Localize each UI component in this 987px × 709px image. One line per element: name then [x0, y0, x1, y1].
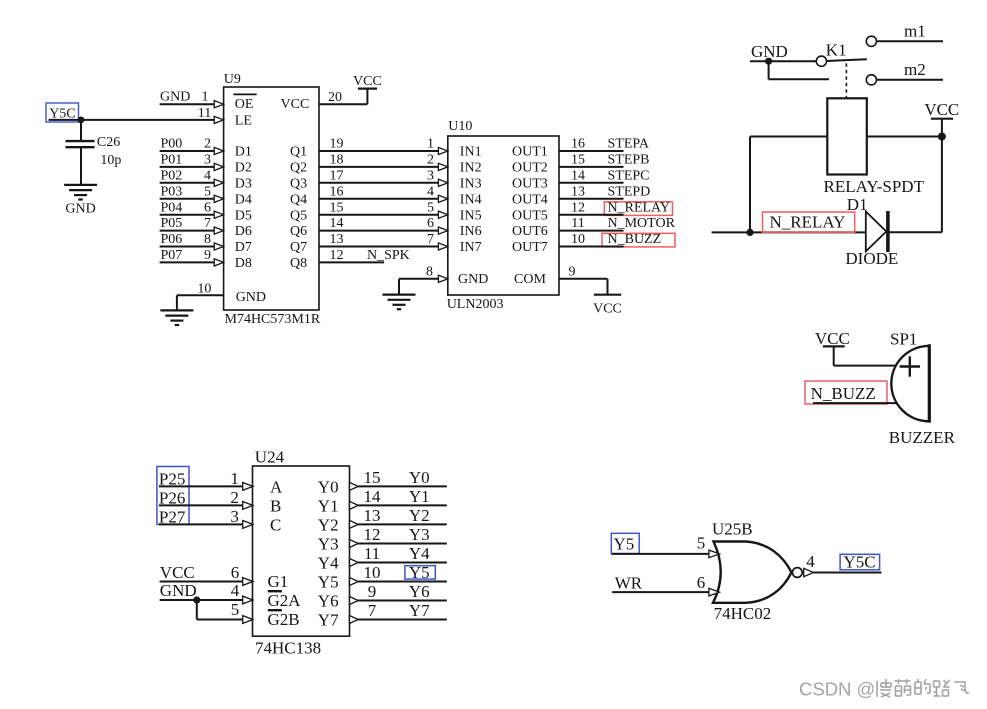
svg-text:3: 3: [230, 507, 239, 526]
svg-text:IN2: IN2: [460, 161, 482, 176]
svg-text:14: 14: [571, 168, 585, 183]
svg-text:LE: LE: [235, 113, 252, 128]
svg-text:15: 15: [330, 200, 344, 215]
svg-text:1: 1: [202, 90, 209, 105]
net label Y5C (input to LE): [46, 103, 79, 122]
svg-text:SP1: SP1: [890, 329, 917, 348]
svg-text:Q1: Q1: [290, 145, 307, 160]
buzzer SP1 body: [891, 344, 929, 422]
svg-text:C26: C26: [97, 135, 120, 150]
wire U9 Q5 to U10 IN5: [319, 211, 448, 218]
U9 pin OE label with overline: [233, 94, 256, 112]
wire U24 Y5 out: [350, 578, 447, 586]
wire U9 Q1 to U10 IN1: [319, 147, 448, 154]
wire U9 GND pin 10 to ground: [177, 295, 224, 310]
svg-text:OUT3: OUT3: [512, 176, 548, 191]
relay K1 pole contact circle: [816, 56, 826, 66]
svg-text:7: 7: [427, 232, 434, 247]
svg-text:3: 3: [204, 153, 211, 168]
wire N_BUZZ to buzzer: [813, 402, 898, 404]
svg-text:OUT2: OUT2: [512, 161, 548, 176]
svg-text:N_SPK: N_SPK: [367, 248, 410, 263]
power symbol VCC at relay: [924, 100, 959, 136]
wire U9 Q8 to N_SPK: [319, 261, 384, 263]
watermark hanzi 萌: [895, 679, 911, 696]
svg-text:D5: D5: [235, 208, 252, 223]
svg-text:6: 6: [427, 216, 434, 231]
svg-text:4: 4: [231, 581, 240, 600]
red box around net N_BUZZ at buzzer: [805, 381, 887, 404]
wire gate output to Y5C: [814, 572, 882, 574]
wire U10 OUT7 to N_BUZZ: [559, 246, 624, 248]
svg-text:5: 5: [231, 600, 240, 619]
svg-text:IN7: IN7: [460, 240, 482, 255]
svg-text:P02: P02: [161, 168, 183, 183]
svg-text:D3: D3: [235, 176, 252, 191]
wire P02 to U9 D3: [160, 179, 224, 186]
svg-text:ULN2003: ULN2003: [447, 297, 504, 312]
svg-text:Y1: Y1: [409, 487, 430, 506]
svg-text:P00: P00: [161, 137, 183, 152]
wire U9 Q6 to U10 IN6: [319, 227, 448, 234]
svg-text:Y4: Y4: [409, 544, 430, 563]
svg-text:5: 5: [204, 184, 211, 199]
svg-text:2: 2: [427, 153, 434, 168]
svg-text:2: 2: [230, 488, 239, 507]
svg-text:13: 13: [330, 232, 344, 247]
svg-text:K1: K1: [826, 41, 847, 60]
svg-text:D4: D4: [235, 192, 252, 207]
svg-text:16: 16: [571, 137, 585, 152]
wire P04 to U9 D5: [160, 211, 224, 218]
wire U9 Q3 to U10 IN3: [319, 179, 448, 186]
svg-text:P07: P07: [161, 248, 183, 263]
svg-text:14: 14: [364, 487, 382, 506]
svg-text:G1: G1: [268, 572, 289, 591]
svg-text:12: 12: [330, 248, 344, 263]
IC U10 ULN2003 body: [448, 136, 559, 295]
wire U9 Q2 to U10 IN2: [319, 163, 448, 170]
buzzer plus sign: [900, 356, 920, 376]
wire N_RELAY to diode anode: [712, 231, 866, 233]
wire WR to gate pin 6: [612, 591, 708, 593]
net label Y5 at gate input: [611, 533, 639, 553]
blue box around net Y5: [405, 566, 435, 579]
U24 pin G2A label with overline: [268, 591, 302, 610]
relay K1 coil body: [827, 98, 867, 174]
watermark hanzi 傻: [877, 679, 891, 697]
wire U24 Y4 out: [350, 559, 447, 567]
svg-text:D6: D6: [235, 224, 252, 239]
svg-text:10: 10: [364, 563, 381, 582]
svg-text:U24: U24: [255, 447, 285, 466]
svg-text:IN4: IN4: [460, 192, 482, 207]
wire VCC down to diode cathode: [888, 137, 942, 233]
svg-text:P05: P05: [161, 216, 183, 231]
svg-text:VCC: VCC: [593, 301, 622, 316]
IC U9 M74HC573M1R body: [224, 87, 319, 310]
svg-text:OE: OE: [235, 97, 254, 112]
wire U9 Q4 to U10 IN4: [319, 195, 448, 202]
svg-text:Q7: Q7: [290, 240, 307, 255]
red box around net N_BUZZ: [602, 233, 675, 247]
wire U10 OUT3 to STEPC: [559, 182, 624, 184]
svg-text:18: 18: [330, 153, 344, 168]
wire P01 to U9 D2: [160, 163, 224, 170]
svg-text:Y4: Y4: [318, 554, 339, 573]
gate output arrow pin 4: [804, 568, 814, 576]
wire U10 OUT4 to STEPD: [559, 198, 624, 200]
svg-text:Y2: Y2: [318, 515, 339, 534]
svg-text:14: 14: [330, 216, 344, 231]
svg-text:6: 6: [697, 573, 706, 592]
svg-text:m2: m2: [904, 60, 926, 79]
svg-text:8: 8: [426, 264, 433, 279]
relay K1 actuation dashed link: [845, 63, 847, 98]
wire m1: [877, 40, 943, 42]
svg-text:Q5: Q5: [290, 208, 307, 223]
svg-text:N_MOTOR: N_MOTOR: [608, 216, 676, 231]
svg-text:OUT4: OUT4: [512, 192, 548, 207]
svg-text:m1: m1: [904, 21, 926, 40]
svg-text:U10: U10: [448, 119, 472, 134]
svg-text:IN1: IN1: [460, 145, 482, 160]
svg-text:Q8: Q8: [290, 256, 307, 271]
svg-text:74HC138: 74HC138: [255, 638, 321, 657]
wire P00 to U9 D1: [160, 147, 224, 154]
junction GND wire: [765, 58, 772, 65]
svg-text:20: 20: [328, 90, 342, 105]
svg-text:OUT5: OUT5: [512, 208, 548, 223]
svg-text:Q3: Q3: [290, 176, 307, 191]
wire U24 Y3 out: [350, 540, 447, 548]
svg-text:STEPB: STEPB: [608, 153, 650, 168]
svg-text:VCC: VCC: [281, 97, 310, 112]
svg-text:GND: GND: [160, 90, 190, 105]
svg-text:P03: P03: [161, 184, 183, 199]
svg-text:5: 5: [427, 200, 434, 215]
svg-text:COM: COM: [514, 272, 546, 287]
relay K1 switch blade: [827, 59, 867, 61]
net label Y5C at gate output: [840, 553, 880, 572]
wire U24 Y6 out: [350, 597, 447, 605]
svg-text:4: 4: [806, 552, 815, 571]
wire P07 to U9 D8: [160, 259, 224, 266]
wire Y5C to U9 LE pin 11: [49, 116, 224, 123]
svg-text:VCC: VCC: [353, 74, 382, 89]
svg-text:1: 1: [230, 469, 239, 488]
svg-text:GND: GND: [458, 272, 488, 287]
red box around net N_RELAY: [604, 202, 672, 216]
svg-text:M74HC573M1R: M74HC573M1R: [225, 312, 321, 327]
svg-text:Q4: Q4: [290, 192, 307, 207]
svg-text:7: 7: [204, 216, 211, 231]
svg-text:A: A: [270, 477, 283, 496]
wire U24 Y2 out: [350, 520, 447, 528]
wire P06 to U9 D7: [160, 243, 224, 250]
svg-text:B: B: [270, 496, 281, 515]
NOR gate U25B body: [713, 542, 792, 603]
svg-text:9: 9: [368, 582, 377, 601]
svg-text:P04: P04: [161, 200, 183, 215]
wire VCC to U24 G1 pin 6: [160, 578, 253, 586]
svg-text:4: 4: [427, 184, 434, 199]
svg-text:IN5: IN5: [460, 208, 482, 223]
svg-text:VCC: VCC: [924, 100, 959, 119]
svg-text:D7: D7: [235, 240, 252, 255]
watermark hanzi 的: [915, 679, 930, 694]
wire U24 Y7 out: [350, 616, 447, 624]
svg-text:16: 16: [330, 184, 344, 199]
power symbol VCC at buzzer: [815, 329, 850, 348]
wire P05 to U9 D6: [160, 227, 224, 234]
svg-text:15: 15: [364, 468, 381, 487]
svg-text:OUT1: OUT1: [512, 145, 548, 160]
wire P26 to U24 B: [159, 502, 253, 510]
svg-text:D2: D2: [235, 161, 252, 176]
svg-text:10p: 10p: [100, 153, 121, 168]
wire relay coil right to VCC: [867, 136, 942, 138]
svg-text:STEPD: STEPD: [608, 184, 651, 199]
wire U10 COM pin 9 to VCC: [559, 279, 608, 295]
svg-text:STEPC: STEPC: [608, 168, 650, 183]
svg-text:2: 2: [204, 137, 211, 152]
wire P03 to U9 D4: [160, 195, 224, 202]
svg-text:G2B: G2B: [268, 610, 300, 629]
svg-text:GND: GND: [65, 201, 95, 216]
svg-text:OUT7: OUT7: [512, 240, 548, 255]
blue box around nets P25 P26 P27: [157, 467, 189, 525]
svg-text:Y0: Y0: [409, 468, 430, 487]
svg-text:IN6: IN6: [460, 224, 482, 239]
power symbol VCC above U9: [353, 74, 382, 89]
svg-text:9: 9: [569, 264, 576, 279]
svg-text:3: 3: [427, 168, 434, 183]
red box around net N_RELAY at relay: [763, 212, 855, 232]
svg-text:4: 4: [204, 168, 211, 183]
svg-text:N_BUZZ: N_BUZZ: [608, 232, 662, 247]
svg-text:OUT6: OUT6: [512, 224, 548, 239]
svg-text:Y3: Y3: [318, 535, 339, 554]
svg-text:Y2: Y2: [409, 506, 430, 525]
svg-text:G2A: G2A: [268, 591, 302, 610]
power symbol VCC below U10 pin 9: [593, 295, 622, 317]
svg-text:10: 10: [197, 281, 211, 296]
wire U9 Q7 to U10 IN7: [319, 243, 448, 250]
junction Y5C/C26: [78, 117, 85, 124]
svg-text:Y7: Y7: [318, 611, 339, 630]
svg-text:12: 12: [364, 525, 381, 544]
svg-text:8: 8: [204, 232, 211, 247]
svg-text:IN3: IN3: [460, 176, 482, 191]
svg-text:U9: U9: [224, 72, 241, 87]
wire U10 OUT6 to N_MOTOR: [559, 230, 624, 232]
capacitor C26: [66, 120, 95, 185]
wire U24 Y0 out: [350, 482, 447, 490]
svg-text:Y5: Y5: [614, 535, 635, 554]
wire relay coil left to N_RELAY net: [750, 137, 827, 233]
svg-text:19: 19: [330, 137, 344, 152]
gate input arrow pin 6: [709, 588, 720, 596]
svg-text:17: 17: [330, 168, 344, 183]
wire P25 to U24 A: [159, 483, 253, 491]
wire VCC to buzzer plus terminal: [834, 346, 898, 365]
wire normally-closed stub: [769, 61, 829, 79]
junction VCC/coil/diode: [938, 133, 946, 141]
svg-text:D1: D1: [847, 195, 868, 214]
junction GND wire at U24: [193, 596, 200, 603]
svg-text:11: 11: [198, 106, 211, 121]
svg-text:P01: P01: [161, 153, 183, 168]
IC U24 74HC138 body: [253, 466, 350, 636]
wire m2: [877, 79, 943, 81]
watermark hanzi 飞: [954, 682, 969, 693]
junction N_RELAY wire: [746, 229, 753, 236]
gate input arrow pin 5: [709, 550, 720, 558]
svg-text:Q2: Q2: [290, 161, 307, 176]
svg-text:WR: WR: [615, 574, 643, 593]
svg-text:Y6: Y6: [318, 592, 339, 611]
diode D1: [866, 211, 888, 252]
svg-text:Y7: Y7: [409, 601, 430, 620]
svg-text:74HC02: 74HC02: [714, 604, 772, 623]
ground below U9 pin 10: [160, 310, 193, 325]
svg-text:N_BUZZ: N_BUZZ: [811, 384, 876, 403]
U24 pin G2B label with overline: [268, 610, 300, 629]
svg-text:Q6: Q6: [290, 224, 307, 239]
wire GND to relay switch pole: [750, 60, 816, 62]
wire U9 VCC pin 20 to VCC symbol: [319, 89, 367, 105]
relay contact m2 circle: [866, 75, 876, 85]
svg-text:D8: D8: [235, 256, 252, 271]
svg-text:6: 6: [204, 200, 211, 215]
gate output inversion bubble: [792, 568, 802, 578]
ground below U10 pin 8: [383, 295, 416, 310]
svg-text:VCC: VCC: [160, 563, 195, 582]
svg-text:6: 6: [231, 563, 240, 582]
svg-text:GND: GND: [160, 581, 197, 600]
svg-text:RELAY-SPDT: RELAY-SPDT: [824, 177, 925, 196]
svg-text:10: 10: [571, 232, 585, 247]
svg-text:13: 13: [364, 506, 381, 525]
svg-text:VCC: VCC: [815, 329, 850, 348]
svg-text:STEPA: STEPA: [608, 137, 650, 152]
wire U24 Y1 out: [350, 501, 447, 509]
wire ground to U10 GND pin 8: [399, 275, 448, 294]
svg-text:N_RELAY: N_RELAY: [770, 213, 846, 232]
svg-text:D1: D1: [235, 145, 252, 160]
wire U10 OUT5 to N_RELAY: [559, 214, 624, 216]
svg-text:CSDN @: CSDN @: [799, 678, 875, 699]
svg-text:Y5: Y5: [409, 563, 430, 582]
svg-text:15: 15: [571, 153, 585, 168]
wire GND to U24 G2B pin 5: [197, 600, 253, 623]
svg-text:Y5: Y5: [318, 573, 339, 592]
svg-text:5: 5: [697, 534, 706, 553]
svg-text:Y5C: Y5C: [844, 553, 876, 572]
watermark hanzi 路: [934, 680, 950, 696]
svg-text:11: 11: [571, 216, 584, 231]
ground below C26: [64, 185, 97, 200]
wire P27 to U24 C: [159, 521, 253, 529]
svg-text:BUZZER: BUZZER: [889, 428, 956, 447]
svg-text:GND: GND: [236, 290, 266, 305]
svg-text:9: 9: [204, 248, 211, 263]
svg-text:13: 13: [571, 184, 585, 199]
svg-text:1: 1: [427, 137, 434, 152]
svg-text:7: 7: [368, 601, 377, 620]
svg-text:12: 12: [571, 200, 585, 215]
svg-text:Y6: Y6: [409, 582, 430, 601]
svg-text:U25B: U25B: [712, 520, 753, 539]
svg-text:Y3: Y3: [409, 525, 430, 544]
svg-text:Y1: Y1: [318, 496, 339, 515]
wire GND to U9 OE pin 1: [160, 101, 224, 108]
wire Y5 to gate pin 5: [612, 553, 709, 555]
svg-text:N_RELAY: N_RELAY: [608, 200, 671, 215]
svg-text:DIODE: DIODE: [845, 249, 898, 268]
svg-text:Y0: Y0: [318, 477, 339, 496]
wire U10 OUT1 to STEPA: [559, 150, 624, 152]
svg-text:C: C: [270, 515, 281, 534]
relay contact m1 circle: [866, 36, 876, 46]
wire GND to U24 G2A pin 4: [160, 596, 253, 604]
svg-text:11: 11: [364, 544, 380, 563]
wire U10 OUT2 to STEPB: [559, 166, 624, 168]
svg-text:P06: P06: [161, 232, 183, 247]
